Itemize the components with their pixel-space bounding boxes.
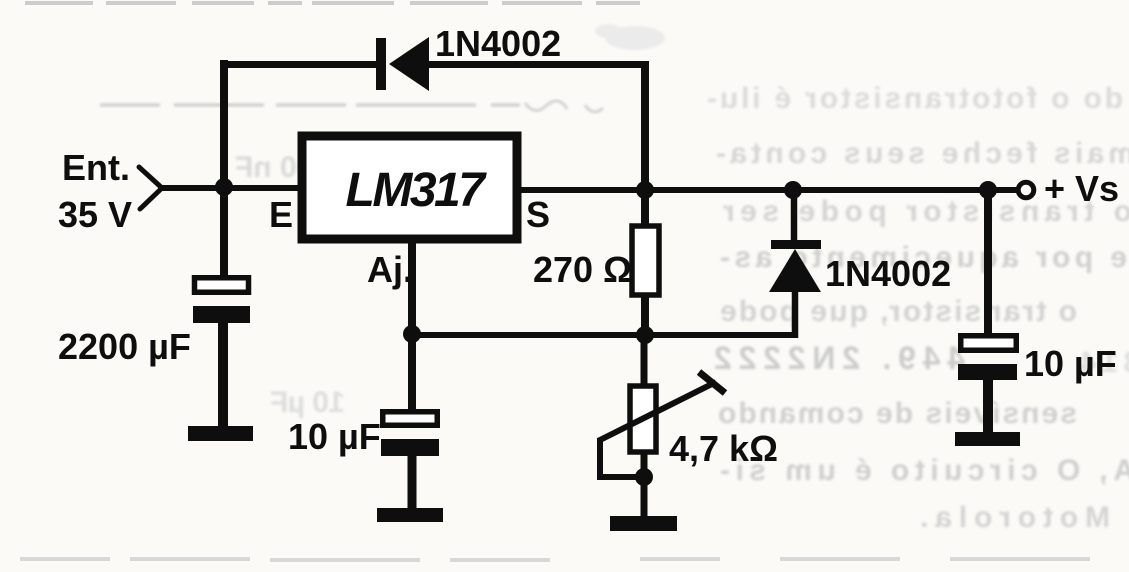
- wire: Aj pin vertical: [408, 243, 416, 412]
- wire: C3 stem: [983, 378, 993, 434]
- svg-text:1N4002: 1N4002: [825, 253, 951, 294]
- svg-text:270 Ω: 270 Ω: [533, 249, 632, 290]
- svg-text:10 µF: 10 µF: [288, 416, 381, 457]
- node: Aj junction: [403, 325, 421, 343]
- wire: input node vertical: [220, 60, 228, 278]
- svg-text:10 µF: 10 µF: [1024, 343, 1117, 384]
- svg-text:mais feche seus conta-: mais feche seus conta-: [716, 137, 1129, 170]
- ground (C1): [188, 426, 253, 441]
- svg-text:2200 µF: 2200 µF: [58, 326, 191, 367]
- faint dotted rule across upper area: [100, 101, 603, 112]
- capacitor C3 10uF plates: [958, 336, 1017, 380]
- wire: 270 ohm top stub: [641, 190, 649, 228]
- scan noise dashes bottom edge: [20, 557, 1090, 562]
- potentiometer wiper arrow: [598, 372, 725, 441]
- wire: input horizontal: [160, 185, 300, 191]
- svg-text:10 µF: 10 µF: [270, 386, 345, 419]
- wire: C1 stem: [218, 322, 228, 428]
- node: input junction: [215, 178, 233, 196]
- svg-text:E: E: [269, 194, 293, 235]
- svg-text:Ent.: Ent.: [62, 147, 130, 188]
- wire: top to diode D1: [221, 61, 378, 68]
- svg-text:+ Vs: + Vs: [1044, 168, 1119, 209]
- wire: C2 stem: [408, 454, 417, 510]
- svg-text:35 V: 35 V: [58, 194, 132, 235]
- input connector: [139, 167, 162, 209]
- capacitor C2 10uF plates: [381, 412, 439, 456]
- svg-text:S: S: [526, 194, 550, 235]
- terminal: +Vs open circle: [1018, 182, 1034, 198]
- svg-text:1N4002: 1N4002: [435, 23, 561, 64]
- wire: diode D1 to output node: [428, 61, 648, 68]
- wire: 270 ohm bottom stub: [641, 294, 649, 338]
- svg-text:4,7 kΩ: 4,7 kΩ: [669, 428, 778, 469]
- wire: pot top stub: [641, 335, 648, 386]
- svg-text:LM317: LM317: [346, 164, 488, 217]
- faint gray patch top right of diode: [595, 24, 665, 50]
- potentiometer R2 4,7k body: [630, 386, 656, 452]
- IC U1 LM317 box: [302, 136, 517, 239]
- ground (C2): [377, 508, 443, 522]
- svg-text:o transistor, que pode: o transistor, que pode: [720, 295, 1077, 328]
- node: output at C3: [979, 181, 997, 199]
- resistor R1 270 ohm: [632, 226, 659, 295]
- svg-text:do o fototransistor é ilu-: do o fototransistor é ilu-: [707, 82, 1123, 115]
- capacitor C1 2200uF plates: [193, 278, 250, 323]
- ground (pot): [610, 516, 677, 531]
- wire: D2 bottom stub: [792, 290, 799, 338]
- diode D2 1N4002 (vertical, pointing up): [769, 240, 821, 292]
- wire: D2 top stub: [791, 190, 798, 243]
- wire: pot wiper L link: [600, 438, 644, 477]
- scan noise dashes top edge: [25, 1, 640, 5]
- wire: adjust horizontal: [412, 332, 798, 338]
- diode D1 1N4002 (top, pointing left): [376, 37, 429, 91]
- svg-text:Aj.: Aj.: [367, 249, 413, 290]
- node: output at D2: [784, 181, 802, 199]
- ghost bleed-through text (mirrored, back of page): [235, 82, 1129, 534]
- svg-text:sensíveis de comando: sensíveis de comando: [718, 397, 1077, 430]
- wire: pot bottom stub: [641, 452, 648, 518]
- ground (C3): [955, 432, 1020, 446]
- node: adjust/270 junction: [636, 326, 654, 344]
- node: output at top wire: [636, 181, 654, 199]
- node: pot wiper junction: [635, 468, 653, 486]
- wire: +Vs cap vertical: [984, 190, 992, 338]
- wire: output horizontal: [521, 187, 1017, 193]
- wire: right vertical from top to output line: [641, 61, 649, 193]
